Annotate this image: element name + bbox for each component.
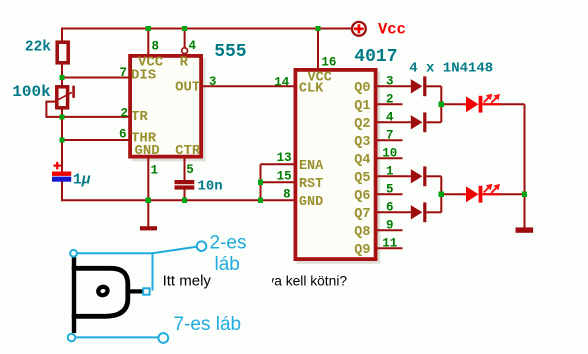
svg-text:6: 6: [386, 201, 394, 215]
svg-text:22k: 22k: [25, 40, 51, 56]
svg-text:8: 8: [152, 39, 160, 53]
svg-text:555: 555: [214, 42, 246, 62]
svg-text:R: R: [180, 55, 189, 71]
svg-text:4017: 4017: [354, 47, 397, 67]
svg-text:va kell kötni?: va kell kötni?: [267, 274, 347, 289]
svg-text:9: 9: [386, 219, 394, 233]
svg-text:RST: RST: [299, 177, 323, 192]
svg-text:14: 14: [274, 76, 290, 90]
svg-text:7: 7: [386, 129, 394, 143]
svg-text:3: 3: [209, 75, 217, 89]
svg-text:10n: 10n: [198, 179, 223, 195]
svg-text:Q1: Q1: [354, 99, 370, 114]
svg-text:7-es láb: 7-es láb: [174, 314, 242, 335]
svg-text:Q5: Q5: [354, 171, 370, 186]
svg-text:Q4: Q4: [354, 153, 370, 168]
svg-text:5: 5: [186, 163, 194, 177]
svg-text:10: 10: [382, 147, 397, 161]
svg-text:6: 6: [119, 128, 127, 142]
svg-text:4: 4: [386, 111, 394, 125]
svg-text:OUT: OUT: [175, 80, 200, 96]
svg-text:Q0: Q0: [354, 81, 370, 96]
svg-text:GND: GND: [299, 195, 323, 210]
svg-text:1: 1: [386, 165, 394, 179]
svg-text:Q2: Q2: [354, 117, 370, 132]
svg-text:Q7: Q7: [354, 207, 370, 222]
svg-text:3: 3: [386, 75, 394, 89]
svg-text:13: 13: [277, 151, 292, 165]
svg-text:7: 7: [119, 66, 127, 80]
svg-text:láb: láb: [215, 254, 240, 275]
svg-text:CLK: CLK: [299, 82, 324, 97]
svg-text:15: 15: [277, 169, 292, 183]
svg-text:100k: 100k: [12, 83, 51, 101]
svg-text:4: 4: [189, 39, 197, 53]
svg-text:1µ: 1µ: [73, 173, 91, 189]
svg-text:8: 8: [283, 188, 291, 202]
svg-text:1: 1: [151, 163, 159, 177]
svg-text:2-es: 2-es: [210, 233, 247, 254]
svg-text:CTR: CTR: [175, 143, 201, 159]
svg-text:Q6: Q6: [354, 189, 370, 204]
svg-text:11: 11: [382, 237, 397, 251]
svg-text:4 x 1N4148: 4 x 1N4148: [409, 61, 493, 77]
svg-text:Itt mely: Itt mely: [163, 273, 212, 290]
svg-text:2: 2: [386, 93, 394, 107]
svg-text:2: 2: [120, 107, 128, 121]
svg-text:5: 5: [386, 183, 394, 197]
svg-text:TR: TR: [131, 109, 148, 125]
svg-text:Q3: Q3: [354, 135, 370, 150]
svg-text:Q8: Q8: [354, 225, 370, 240]
svg-text:ENA: ENA: [299, 159, 324, 174]
svg-text:DIS: DIS: [131, 67, 156, 83]
svg-text:16: 16: [321, 56, 336, 70]
svg-text:Q9: Q9: [354, 243, 370, 258]
svg-text:GND: GND: [135, 143, 160, 159]
svg-text:Vcc: Vcc: [378, 21, 406, 39]
